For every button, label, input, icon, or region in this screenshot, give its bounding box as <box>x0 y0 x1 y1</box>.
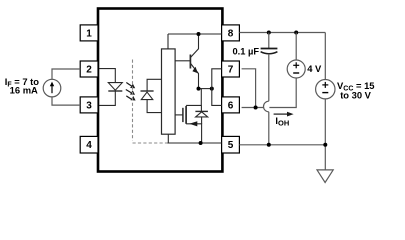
wire pin2 to current source <box>52 69 80 79</box>
node dot emitter <box>197 87 201 91</box>
wire VCC corner down <box>324 33 326 80</box>
internal bottom rail <box>168 142 222 144</box>
svg-text:6: 6 <box>228 100 234 111</box>
wire VCC to ground rail <box>324 99 326 170</box>
source V1 VCC <box>316 80 335 99</box>
capacitor C1 0.1uF <box>261 33 278 102</box>
internal top rail to pin 8 <box>168 33 222 35</box>
node dot 4V-rail <box>294 31 298 35</box>
pin 1 <box>80 25 98 41</box>
pin 2 <box>80 61 98 77</box>
LED D1 <box>108 83 122 91</box>
pin 6 <box>222 97 240 113</box>
wire pin3 to current source <box>52 97 80 105</box>
svg-text:16 mA: 16 mA <box>10 84 38 95</box>
transistor Q1 <box>175 34 198 89</box>
node dot vcc-gnd <box>323 143 327 147</box>
node dot bottom rail <box>199 141 203 145</box>
svg-text:to 30 V: to 30 V <box>340 90 371 101</box>
wire node to pin 6 <box>212 89 222 106</box>
label VCC = 15 to 30 V <box>337 80 375 101</box>
pin 5 <box>222 136 240 153</box>
dashed shield bottom <box>133 142 168 144</box>
pin 7 <box>222 61 240 77</box>
wire pin5 rail <box>239 144 325 146</box>
IC body U1 <box>98 9 222 172</box>
pin 8 <box>222 25 240 41</box>
wire pin6 to hop <box>242 107 264 109</box>
svg-text:4 V: 4 V <box>307 63 322 74</box>
node dot cap-gnd <box>267 143 271 147</box>
wire LED cathode to pin3 <box>99 91 115 105</box>
IOH arrow <box>274 112 294 117</box>
svg-text:0.1 µF: 0.1 µF <box>233 46 260 56</box>
pin 4 <box>80 136 98 153</box>
dashed shield divider <box>132 60 134 141</box>
node dot pin7 branch <box>210 87 214 91</box>
current source IF <box>43 79 61 97</box>
amplifier block <box>162 49 176 134</box>
cap line below hop <box>268 112 270 145</box>
node dot cap-rail <box>267 31 271 35</box>
svg-text:3: 3 <box>86 100 92 111</box>
svg-text:5: 5 <box>228 140 234 151</box>
wire pin7 down to pin6 wire <box>242 69 256 108</box>
svg-text:IOH: IOH <box>275 115 289 128</box>
svg-text:2: 2 <box>86 64 92 75</box>
stub amp bottom to rail <box>167 134 169 143</box>
label IF = 7 to 16 mA <box>5 76 40 95</box>
source V2 4V <box>287 60 305 78</box>
pin 3 <box>80 97 98 113</box>
ground <box>317 170 333 183</box>
stub amp top to rail <box>167 34 169 49</box>
node dot collector-rail <box>197 32 201 36</box>
svg-text:4: 4 <box>86 140 92 151</box>
svg-text:1: 1 <box>86 28 92 39</box>
emitter node wire <box>199 88 212 90</box>
wire node to pin 7 <box>212 69 222 89</box>
top rail pin8 to VCC corner <box>239 32 325 34</box>
wire pin2 to LED anode <box>99 69 115 83</box>
svg-text:7: 7 <box>228 64 234 75</box>
svg-text:8: 8 <box>228 28 234 39</box>
photodiode PD <box>141 79 162 112</box>
wire rail to 4V source <box>295 33 297 61</box>
wire hop to 4V source <box>269 78 296 107</box>
body diode D2 <box>195 105 208 123</box>
wire hop over cap line <box>264 101 269 112</box>
node dot pin6-pin7 <box>254 106 258 110</box>
light arrows <box>126 83 136 101</box>
MOSFET Q2 <box>175 89 202 143</box>
